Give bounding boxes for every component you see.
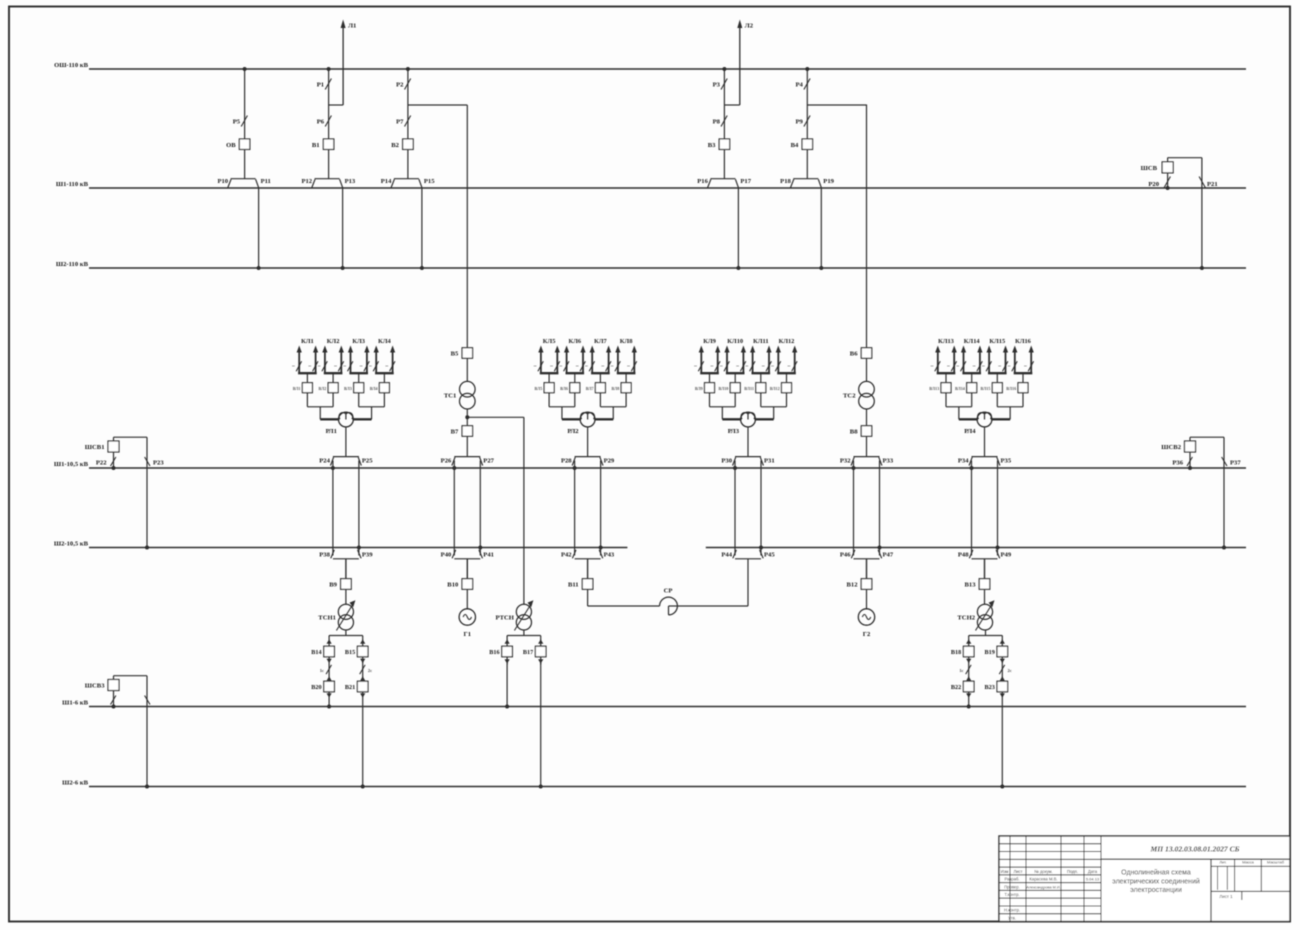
svg-text:Р47: Р47 <box>883 552 894 559</box>
reactor РЛ4 (split line reactor) <box>964 412 992 435</box>
svg-text:Р26: Р26 <box>441 458 452 465</box>
disconnector Р45 <box>759 546 775 559</box>
disconnector Р26 <box>441 457 457 470</box>
transformer ТСН1 (station service, with tap changer) <box>318 600 355 630</box>
svg-text:Р20: Р20 <box>1148 181 1159 188</box>
wire merge КЛ15+КЛ16 <box>991 407 1023 420</box>
breaker В7 <box>451 426 473 437</box>
svg-text:Лист 1: Лист 1 <box>1219 894 1233 899</box>
disconnector Р21 <box>1199 158 1218 270</box>
disconnector Р9 <box>795 116 810 127</box>
drawout breaker В15 <box>345 636 368 657</box>
bus selector cell Р28/Р29/Р42/Р43 <box>575 457 601 559</box>
disconnector Р3 <box>713 79 728 90</box>
svg-text:В13: В13 <box>965 582 977 589</box>
breaker of КЛ13 <box>929 383 951 407</box>
breaker В2 <box>391 139 413 150</box>
wire <box>866 358 868 381</box>
svg-text:Ш1-10,5 кВ: Ш1-10,5 кВ <box>54 461 89 468</box>
disconnector Р20 <box>1148 173 1170 190</box>
svg-text:Р15: Р15 <box>424 178 435 185</box>
svg-text:ВЛ15: ВЛ15 <box>981 386 991 391</box>
svg-text:Ш1-110 кВ: Ш1-110 кВ <box>56 181 89 188</box>
breaker of КЛ10 <box>718 383 740 407</box>
fuse link <box>999 657 1011 681</box>
cable line КЛ15 (double circuit with disconnectors) <box>982 338 1008 383</box>
svg-text:ШСВ2: ШСВ2 <box>1161 444 1181 451</box>
svg-text:В18: В18 <box>951 649 961 656</box>
bus selector cell Р26/Р27/Р40/Р41 <box>454 457 480 559</box>
svg-text:ВЛ11: ВЛ11 <box>744 386 754 391</box>
disconnector Р8 <box>713 116 728 127</box>
bus Ш2-6 кВ <box>62 779 1246 786</box>
svg-text:Р22: Р22 <box>96 460 107 467</box>
svg-text:МП 13.02.03.08.01.2027 СБ: МП 13.02.03.08.01.2027 СБ <box>1150 844 1240 853</box>
svg-text:Р13: Р13 <box>345 178 356 185</box>
svg-text:КЛ7: КЛ7 <box>594 338 607 345</box>
bay wire to bus selector <box>328 150 330 179</box>
cable line КЛ8 (double circuit with disconnectors) <box>611 338 637 383</box>
svg-text:Р6: Р6 <box>317 119 325 126</box>
svg-text:СР: СР <box>664 588 673 595</box>
wire to Ш2-6 <box>1000 692 1004 789</box>
wire jog <box>724 104 739 106</box>
breaker of КЛ6 <box>560 383 580 407</box>
drawout breaker В23 <box>984 681 1007 698</box>
breaker of КЛ15 <box>981 383 1003 407</box>
svg-text:В1: В1 <box>312 142 320 149</box>
wire ТС2 feed from В4 jog down to В6 <box>866 105 868 348</box>
wire jog <box>807 104 866 106</box>
wire merge КЛ13+КЛ14 <box>946 407 978 420</box>
svg-text:Р34: Р34 <box>958 458 969 465</box>
svg-text:В7: В7 <box>451 429 459 436</box>
cable line КЛ1 (double circuit with disconnectors) <box>292 338 318 383</box>
wire СР loop left <box>588 589 660 606</box>
wire <box>345 589 347 604</box>
bus Ш2-110 кВ <box>56 261 1246 268</box>
svg-text:Р17: Р17 <box>740 178 751 185</box>
svg-text:ТС1: ТС1 <box>444 393 456 400</box>
svg-text:Изм: Изм <box>1001 869 1009 874</box>
title block texts <box>1001 844 1285 920</box>
svg-text:ВЛ9: ВЛ9 <box>695 386 703 391</box>
wire Р15 drop to Ш2-110 <box>420 188 424 270</box>
svg-text:ВЛ7: ВЛ7 <box>586 386 594 391</box>
svg-text:Александрова М.И.: Александрова М.И. <box>1026 885 1060 889</box>
svg-text:КЛ14: КЛ14 <box>964 338 981 345</box>
wire split bar <box>329 630 363 636</box>
disconnector Р28 <box>561 457 577 470</box>
cable line КЛ7 (double circuit with disconnectors) <box>585 338 611 383</box>
svg-text:Р25: Р25 <box>362 458 373 465</box>
svg-text:Ш2-6 кВ: Ш2-6 кВ <box>62 779 88 786</box>
svg-text:В23: В23 <box>984 684 994 691</box>
breaker В3 <box>708 139 730 150</box>
svg-text:Утв.: Утв. <box>1008 915 1016 920</box>
reactor СР (section reactor) <box>660 588 678 615</box>
svg-text:КЛ8: КЛ8 <box>620 338 633 345</box>
disconnector Р48 <box>958 550 973 559</box>
svg-text:Р44: Р44 <box>721 552 732 559</box>
drawout breaker В18 <box>951 636 974 657</box>
breaker В12 <box>847 579 872 590</box>
breaker of КЛ4 <box>370 383 390 407</box>
svg-text:Р32: Р32 <box>840 458 851 465</box>
svg-text:РЛ3: РЛ3 <box>728 428 740 435</box>
bus Ш1-10,5 кВ <box>54 461 1246 468</box>
svg-text:Т.контр.: Т.контр. <box>1004 892 1019 897</box>
bay wire to bus selector <box>723 150 725 179</box>
wire РЛ2 to bus selector <box>587 427 589 457</box>
disconnector Р7 <box>396 116 411 127</box>
svg-text:ВЛ13: ВЛ13 <box>929 386 939 391</box>
breaker of КЛ5 <box>534 383 554 407</box>
svg-text:В8: В8 <box>850 429 858 436</box>
disconnector <box>111 691 116 709</box>
breaker of КЛ11 <box>744 383 766 407</box>
wire from bus selector to В10 <box>466 559 468 579</box>
disconnector Р37 <box>1222 437 1242 549</box>
wire ТС1 feed from В2 jog down to В5 <box>466 105 468 348</box>
cable line КЛ2 (double circuit with disconnectors) <box>318 338 344 383</box>
svg-text:Г1: Г1 <box>464 631 472 638</box>
svg-text:ВЛ3: ВЛ3 <box>344 386 352 391</box>
drawout contact <box>505 657 510 665</box>
breaker of КЛ3 <box>344 383 364 407</box>
wire to Ш2-6 <box>539 662 543 789</box>
wire РТСН feed <box>523 417 525 604</box>
svg-text:Р35: Р35 <box>1001 458 1012 465</box>
svg-text:В11: В11 <box>568 582 579 589</box>
svg-text:Р12: Р12 <box>301 178 312 185</box>
bus selector bar with disconnectors Р10,Р11 <box>217 178 270 188</box>
wire merge КЛ3+КЛ4 <box>353 407 385 420</box>
svg-text:Ш2-10,5 кВ: Ш2-10,5 кВ <box>54 540 89 547</box>
svg-text:1с: 1с <box>959 668 963 673</box>
svg-text:Р21: Р21 <box>1207 181 1218 188</box>
svg-text:В19: В19 <box>984 649 994 656</box>
svg-text:Однолинейная схема: Однолинейная схема <box>1121 869 1191 877</box>
cable line КЛ14 (double circuit with disconnectors) <box>956 338 982 383</box>
fuse link <box>959 657 971 681</box>
wire Р11 drop to Ш2-110 <box>257 188 261 270</box>
drawout contact <box>538 657 543 665</box>
svg-text:Н.контр.: Н.контр. <box>1004 908 1020 913</box>
svg-text:ВЛ6: ВЛ6 <box>560 386 568 391</box>
svg-text:Р31: Р31 <box>764 458 775 465</box>
disconnector <box>145 676 150 789</box>
wire РЛ4 to bus selector <box>984 427 986 457</box>
cable line КЛ3 (double circuit with disconnectors) <box>343 338 369 383</box>
drawout breaker В19 <box>984 636 1007 657</box>
bus ОШ-110 кВ <box>54 62 1246 69</box>
transformer РТСН (station service, with tap changer) <box>495 600 533 630</box>
svg-text:В22: В22 <box>951 684 961 691</box>
breaker ШСВ (110 кВ bus coupler) <box>1141 162 1174 173</box>
bus selector bar with disconnectors Р14,Р15 <box>381 178 435 188</box>
svg-text:Р19: Р19 <box>823 178 834 185</box>
bus selector cell Р34/Р35/Р48/Р49 <box>972 457 998 559</box>
svg-text:ВЛ4: ВЛ4 <box>370 386 379 391</box>
svg-text:Л2: Л2 <box>745 23 754 30</box>
svg-text:Р7: Р7 <box>396 119 404 126</box>
svg-text:ВЛ2: ВЛ2 <box>318 386 326 391</box>
wire РЛ1 to bus selector <box>345 427 347 457</box>
disconnector Р40 <box>441 550 456 559</box>
cable line КЛ12 (double circuit with disconnectors) <box>771 338 797 383</box>
svg-text:ОВ: ОВ <box>226 142 236 149</box>
svg-text:Р4: Р4 <box>795 82 803 89</box>
svg-text:КЛ10: КЛ10 <box>727 338 743 345</box>
breaker В5 <box>451 348 473 359</box>
wire to bus selector <box>866 436 868 456</box>
disconnector Р47 <box>878 546 894 559</box>
svg-text:Р49: Р49 <box>1001 552 1012 559</box>
svg-text:Р24: Р24 <box>319 458 330 465</box>
svg-text:Р30: Р30 <box>721 458 732 465</box>
wire Р13 drop to Ш2-110 <box>341 188 345 270</box>
fuse link <box>360 657 372 681</box>
wire merge КЛ9+КЛ10 <box>710 407 742 420</box>
svg-text:ШСВ3: ШСВ3 <box>85 683 105 690</box>
line Л1 <box>341 20 357 106</box>
disconnector Р32 <box>840 457 856 470</box>
disconnector Р41 <box>478 546 494 559</box>
breaker of КЛ9 <box>695 383 715 407</box>
svg-text:Р23: Р23 <box>153 460 164 467</box>
svg-text:ТСН1: ТСН1 <box>318 615 336 622</box>
svg-text:Р27: Р27 <box>483 458 494 465</box>
svg-text:В20: В20 <box>311 684 321 691</box>
disconnector Р31 <box>760 457 774 465</box>
disconnector Р29 <box>600 457 615 465</box>
generator Г2 <box>858 589 874 638</box>
svg-text:ВЛ12: ВЛ12 <box>770 386 780 391</box>
svg-text:КЛ1: КЛ1 <box>301 338 314 345</box>
svg-text:КЛ5: КЛ5 <box>543 338 556 345</box>
wire split bar <box>507 630 541 636</box>
svg-text:РЛ4: РЛ4 <box>964 428 976 435</box>
transformer ТСН2 (station service, with tap changer) <box>957 600 994 630</box>
svg-text:В15: В15 <box>345 649 355 656</box>
wire <box>866 409 868 426</box>
line Л2 <box>737 20 753 106</box>
bay wire from ОШ-110 for breaker ОВ <box>243 67 247 139</box>
breaker ШСВ2 (bus coupler) <box>1161 441 1195 452</box>
svg-text:Р8: Р8 <box>713 119 721 126</box>
wire from bus selector to В11 <box>587 559 589 579</box>
bay wire from ОШ-110 for breaker В2 <box>406 67 410 139</box>
reactor РЛ1 (split line reactor) <box>326 412 354 435</box>
breaker В1 <box>312 139 334 150</box>
wire <box>466 358 468 381</box>
svg-text:Разраб.: Разраб. <box>1004 877 1019 882</box>
svg-text:КЛ4: КЛ4 <box>378 338 391 345</box>
svg-text:Р2: Р2 <box>396 82 404 89</box>
svg-text:КЛ15: КЛ15 <box>989 338 1005 345</box>
bus selector cell Р24/Р25/Р38/Р39 <box>333 457 359 559</box>
wire РЛ3 to bus selector <box>747 427 749 457</box>
wire split bar <box>969 630 1003 636</box>
svg-text:Р9: Р9 <box>795 119 803 126</box>
svg-text:5.04.13: 5.04.13 <box>1086 877 1100 882</box>
breaker of КЛ8 <box>611 383 631 407</box>
disconnector Р43 <box>599 546 615 559</box>
breaker В4 <box>791 139 813 150</box>
svg-text:электростанции: электростанции <box>1130 887 1182 894</box>
wire to bus selector <box>466 436 468 456</box>
node ТС1 LV tap <box>465 415 524 419</box>
svg-text:В5: В5 <box>451 351 459 358</box>
wire merge КЛ1+КЛ2 <box>307 407 339 420</box>
svg-text:В10: В10 <box>447 582 459 589</box>
svg-text:Р37: Р37 <box>1230 460 1241 467</box>
disconnector Р46 <box>840 550 855 559</box>
bay wire to bus selector <box>806 150 808 179</box>
svg-text:Р36: Р36 <box>1172 460 1183 467</box>
svg-text:В3: В3 <box>708 142 716 149</box>
svg-text:ШСВ1: ШСВ1 <box>85 444 105 451</box>
svg-text:Р5: Р5 <box>233 119 241 126</box>
wire <box>466 409 468 426</box>
disconnector Р38 <box>319 550 334 559</box>
disconnector Р24 <box>319 457 335 470</box>
svg-text:РТСН: РТСН <box>495 615 514 622</box>
drawout breaker В17 <box>523 636 546 657</box>
wire merge КЛ11+КЛ12 <box>755 407 787 420</box>
svg-text:Р28: Р28 <box>561 458 572 465</box>
title block (основная надпись) <box>999 836 1290 922</box>
wire coupler top link <box>1190 437 1224 441</box>
svg-text:Р43: Р43 <box>604 552 615 559</box>
disconnector Р35 <box>997 457 1012 465</box>
disconnector Р33 <box>879 457 894 465</box>
generator Г1 <box>459 589 475 638</box>
svg-text:ТС2: ТС2 <box>843 393 856 400</box>
svg-text:КЛ9: КЛ9 <box>703 338 716 345</box>
bay wire to bus selector <box>407 150 409 179</box>
disconnector Р30 <box>721 457 737 470</box>
wire to Ш2-6 <box>361 692 365 789</box>
wire jog <box>408 104 467 106</box>
svg-text:В4: В4 <box>791 142 799 149</box>
wire Р19 drop to Ш2-110 <box>819 188 823 270</box>
disconnector Р27 <box>480 457 495 465</box>
svg-text:Лист: Лист <box>1013 869 1022 874</box>
svg-text:РЛ1: РЛ1 <box>326 428 337 435</box>
svg-text:ВЛ10: ВЛ10 <box>718 386 728 391</box>
wire to Ш1-6 <box>327 692 331 709</box>
svg-text:В14: В14 <box>311 649 321 656</box>
drawout breaker В20 <box>311 681 334 698</box>
svg-text:Р16: Р16 <box>697 178 708 185</box>
svg-text:Р18: Р18 <box>780 178 791 185</box>
reactor РЛ3 (split line reactor) <box>728 412 756 435</box>
svg-text:ВЛ1: ВЛ1 <box>293 386 301 391</box>
wire to Ш1-6 <box>505 662 509 709</box>
disconnector Р5 <box>233 116 248 127</box>
breaker of КЛ14 <box>955 383 977 407</box>
svg-text:№ докум.: № докум. <box>1034 869 1052 874</box>
wire from bus selector to В12 <box>866 559 868 579</box>
svg-text:Провер.: Провер. <box>1004 884 1020 889</box>
bay wire from ОШ-110 for breaker В1 <box>327 67 331 139</box>
disconnector Р49 <box>996 546 1012 559</box>
drawout breaker В22 <box>951 681 974 698</box>
svg-text:Л1: Л1 <box>348 23 356 30</box>
svg-text:Р42: Р42 <box>561 552 572 559</box>
disconnector Р34 <box>958 457 974 470</box>
svg-text:ШСВ: ШСВ <box>1141 165 1158 172</box>
transformer ТС1 <box>444 381 475 409</box>
disconnector Р22 <box>96 452 116 470</box>
wire merge КЛ5+КЛ6 <box>549 407 581 420</box>
breaker of КЛ12 <box>770 383 792 407</box>
svg-text:Ш1-6 кВ: Ш1-6 кВ <box>62 699 88 706</box>
breaker ШСВ3 (bus coupler) <box>85 680 119 691</box>
wire coupler top link <box>114 437 148 441</box>
svg-text:электрических соединений: электрических соединений <box>1112 878 1200 886</box>
svg-text:Р29: Р29 <box>604 458 615 465</box>
breaker В13 <box>965 579 990 590</box>
svg-text:В6: В6 <box>850 351 858 358</box>
bus selector cell Р32/Р33/Р46/Р47 <box>854 457 880 559</box>
bay wire from ОШ-110 for breaker В3 <box>722 67 726 139</box>
wire <box>984 589 986 604</box>
drawout breaker В14 <box>311 636 334 657</box>
breaker of КЛ16 <box>1006 383 1028 407</box>
bay wire from ОШ-110 for breaker В4 <box>805 67 809 139</box>
svg-text:Р39: Р39 <box>362 552 373 559</box>
disconnector Р23 <box>145 437 165 549</box>
disconnector Р1 <box>317 79 332 90</box>
disconnector Р4 <box>795 79 810 90</box>
fuse link <box>320 657 332 681</box>
breaker of КЛ1 <box>293 383 313 407</box>
disconnector Р36 <box>1172 452 1192 470</box>
drawout breaker В21 <box>345 681 368 698</box>
svg-text:ВЛ5: ВЛ5 <box>534 386 542 391</box>
breaker В10 <box>447 579 472 590</box>
svg-text:В21: В21 <box>345 684 355 691</box>
svg-text:В9: В9 <box>329 582 337 589</box>
svg-text:Р45: Р45 <box>764 552 775 559</box>
wire Р17 drop to Ш2-110 <box>736 188 740 270</box>
bus Ш1-110 кВ <box>56 181 1246 188</box>
svg-text:Р46: Р46 <box>840 552 851 559</box>
svg-text:1с: 1с <box>320 668 324 673</box>
svg-text:КЛ16: КЛ16 <box>1015 338 1032 345</box>
svg-text:В16: В16 <box>489 649 499 656</box>
breaker ОВ <box>226 139 250 150</box>
svg-text:КЛ3: КЛ3 <box>352 338 365 345</box>
svg-text:Р14: Р14 <box>381 178 392 185</box>
breaker В11 <box>568 579 593 590</box>
cable line КЛ4 (double circuit with disconnectors) <box>369 338 395 383</box>
transformer ТС2 <box>843 381 874 409</box>
svg-text:Масса: Масса <box>1242 860 1255 865</box>
wire to Ш1-6 <box>967 692 971 709</box>
wire СР loop right <box>677 559 748 606</box>
cable line КЛ9 (double circuit with disconnectors) <box>694 338 720 383</box>
svg-text:ВЛ14: ВЛ14 <box>955 386 966 391</box>
svg-text:Р33: Р33 <box>883 458 894 465</box>
svg-text:Карасева М.В.: Карасева М.В. <box>1029 877 1057 882</box>
breaker of КЛ7 <box>586 383 606 407</box>
bus Ш2-10,5 кВ section 1 <box>54 540 628 547</box>
svg-text:Р11: Р11 <box>261 178 271 185</box>
